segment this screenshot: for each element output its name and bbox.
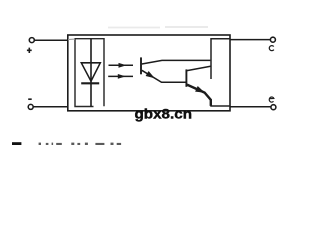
svg-text:gbx8.cn: gbx8.cn [135,107,193,122]
